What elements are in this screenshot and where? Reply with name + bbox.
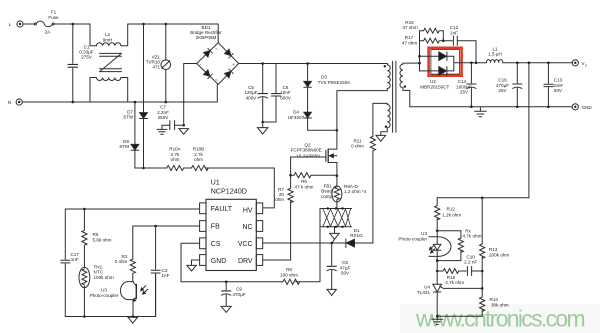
- svg-text:Photo-coupler: Photo-coupler: [398, 236, 427, 241]
- svg-text:500V: 500V: [280, 96, 292, 101]
- U2 cathode bus and output: [454, 56, 476, 71]
- svg-text:50V: 50V: [554, 88, 563, 93]
- bridge rectifier BD1 diamond: [197, 43, 239, 85]
- diode U2 bottom: [439, 67, 454, 76]
- node R5 top: [83, 208, 86, 211]
- wire GND pin to ground: [192, 260, 200, 265]
- wire VCC line: [263, 242, 346, 244]
- label Rx 4.7k ohm: [463, 228, 482, 238]
- L2 core: [100, 53, 122, 71]
- wire R13 branch: [481, 198, 483, 244]
- svg-text:R15: R15: [447, 275, 456, 280]
- resistor R11: [370, 136, 375, 150]
- diode D3 TVS: [304, 64, 312, 113]
- ground (open triangle) C9: [221, 306, 231, 312]
- label C3 1nF: [162, 268, 170, 278]
- svg-text:comp: comp: [321, 194, 333, 199]
- svg-text:TVS P6KE150A: TVS P6KE150A: [318, 80, 352, 85]
- svg-text:0 ohm: 0 ohm: [351, 144, 364, 149]
- label D1 RS1G: [350, 228, 363, 238]
- svg-text:R5: R5: [93, 232, 99, 237]
- svg-text:25V: 25V: [460, 90, 469, 95]
- capacitor C6: [263, 64, 281, 123]
- inductor L1: [486, 60, 502, 63]
- node C13 gnd: [547, 106, 550, 109]
- svg-text:FB: FB: [211, 224, 220, 231]
- label D6 STM: [119, 139, 129, 149]
- wire output node to L1: [476, 62, 486, 64]
- earth ground TL431: [432, 316, 443, 324]
- wire CS sense riser: [319, 209, 321, 282]
- primary phase dot: [384, 65, 386, 67]
- svg-text:47 ohm: 47 ohm: [402, 25, 417, 30]
- node D3: [306, 62, 309, 65]
- capacitor C3: [151, 226, 160, 317]
- label C7 2.2nF 250V: [157, 105, 169, 120]
- svg-text:0 ohm: 0 ohm: [115, 259, 128, 264]
- node C14: [470, 62, 473, 65]
- pin labels U1: [211, 206, 253, 265]
- transformer T1 core: [393, 61, 396, 132]
- svg-text:o: o: [585, 64, 587, 68]
- svg-text:120µF: 120µF: [244, 90, 257, 95]
- svg-text:5.6k ohm: 5.6k ohm: [93, 237, 112, 242]
- BD1 diode bottom-left: [204, 70, 213, 79]
- svg-text:1.2 ohm *4: 1.2 ohm *4: [344, 189, 367, 194]
- U2 anode stubs: [420, 56, 439, 71]
- ground (open triangle) sense network: [330, 227, 339, 243]
- capacitor C14: [467, 63, 476, 107]
- terminal Vo: [572, 60, 578, 66]
- wire to R10A: [135, 167, 167, 169]
- inductor L2 common-mode choke top winding: [97, 43, 121, 46]
- transistor Q2 MOSFET: [291, 149, 337, 176]
- wire L to fuse: [23, 23, 34, 25]
- label R6 47 ohm: [295, 179, 314, 189]
- wire bridge left to C7 node: [184, 64, 197, 126]
- svg-text:U3: U3: [421, 231, 427, 236]
- svg-text:U2: U2: [430, 79, 436, 84]
- svg-text:HV: HV: [243, 208, 253, 215]
- svg-text:100 ohm: 100 ohm: [280, 272, 298, 277]
- ground (open triangle) aux winding: [376, 135, 386, 141]
- LED of U3: [434, 231, 441, 261]
- resistor R10A: [167, 165, 184, 170]
- label C1 0.33uF 275V: [79, 44, 94, 59]
- svg-text:400V: 400V: [246, 96, 258, 101]
- label C12 1nF: [450, 25, 459, 35]
- svg-text:STM: STM: [119, 144, 129, 149]
- pin CS: [200, 238, 206, 249]
- label C10 2.2 nF: [464, 254, 477, 264]
- resistor R16: [420, 28, 444, 40]
- pin NC: [256, 221, 262, 232]
- label D7 STM: [123, 109, 133, 119]
- pin GND: [200, 255, 206, 266]
- wire fuse to L2, junction C1: [54, 24, 96, 46]
- svg-text:1000µF: 1000µF: [456, 84, 472, 89]
- label BD1 Bridge Rectifier 2KBP06M: [190, 25, 222, 40]
- resistor R6: [291, 173, 337, 178]
- capacitor C12: [443, 36, 476, 63]
- wire anode to Rx: [437, 231, 461, 238]
- svg-text:R12: R12: [447, 206, 456, 211]
- wire R10B to HV pin: [205, 168, 274, 208]
- svg-text:C16: C16: [498, 78, 507, 83]
- aux phase dot: [385, 126, 387, 128]
- node source R6: [336, 175, 339, 178]
- node REF: [481, 287, 484, 290]
- label C8 47uF 50V: [340, 260, 351, 276]
- node C5 C6 bottom: [261, 121, 264, 124]
- svg-text:NCP1240D: NCP1240D: [211, 186, 247, 195]
- label C6 10nF 500V: [280, 85, 292, 101]
- transistor in U3: [133, 276, 137, 317]
- node R13 top: [481, 197, 484, 200]
- svg-text:ohm: ohm: [194, 157, 203, 162]
- svg-text:U1: U1: [211, 178, 220, 187]
- label R12 1.2k ohm: [442, 206, 461, 217]
- label L1 1.5 uH: [488, 46, 502, 56]
- svg-text:~: ~: [215, 47, 218, 52]
- svg-text:2KBP06M: 2KBP06M: [196, 35, 217, 40]
- thermistor TN1 NTC: [79, 267, 90, 316]
- svg-text:ohm: ohm: [275, 197, 284, 202]
- svg-text:~: ~: [215, 78, 218, 83]
- diode D4: [304, 112, 337, 130]
- resistor R12: [435, 198, 440, 231]
- svg-text:10.2A/600V: 10.2A/600V: [296, 153, 321, 158]
- node opto emitter: [132, 315, 135, 318]
- node cathode: [436, 259, 439, 262]
- label F1 Fuse 2A: [45, 10, 59, 35]
- bottom rail TL431: [437, 315, 482, 317]
- resistor R15: [437, 269, 466, 274]
- node R13 bottom: [481, 270, 484, 273]
- label U2 MBR20150CT: [420, 79, 449, 89]
- svg-text:47 k ohm: 47 k ohm: [295, 185, 314, 190]
- varistor VZ1: [161, 24, 171, 102]
- svg-text:47µF: 47µF: [340, 265, 351, 270]
- photo-coupler U3 transistor side package arc: [121, 282, 134, 300]
- terminal N: [16, 99, 22, 105]
- rectifier U2 body box: [431, 50, 460, 75]
- svg-text:C13: C13: [554, 78, 563, 83]
- light arrows into U3: [141, 286, 148, 295]
- svg-text:2.2 nF: 2.2 nF: [464, 260, 477, 265]
- pin DRV: [256, 255, 262, 266]
- svg-text:Photo-coupler: Photo-coupler: [90, 293, 119, 298]
- svg-text:CS: CS: [211, 241, 221, 248]
- svg-text:10nF: 10nF: [280, 90, 291, 95]
- svg-text:275V: 275V: [81, 55, 93, 60]
- node C5: [261, 62, 264, 65]
- svg-text:C9: C9: [236, 287, 242, 292]
- svg-text:C8: C8: [342, 260, 348, 265]
- label R8 100 ohm: [280, 267, 298, 277]
- svg-text:4.7k ohm: 4.7k ohm: [445, 280, 464, 285]
- label C13 10nF 50V: [553, 78, 564, 94]
- capacitor C5: [258, 64, 268, 123]
- svg-text:F1: F1: [51, 10, 57, 15]
- label VZ1 TVR10 471: [146, 54, 161, 69]
- wire FAULT line: [65, 208, 199, 210]
- node anode bus: [418, 55, 421, 58]
- resistor R13: [480, 244, 485, 288]
- op-amp U1 NCP1240D body: [206, 199, 256, 270]
- label R10A 2.7k ohm: [169, 147, 181, 162]
- transformer aux winding: [373, 103, 390, 135]
- svg-text:VCC: VCC: [238, 241, 253, 248]
- svg-text:GND: GND: [211, 258, 227, 265]
- node C7 junction: [182, 124, 185, 127]
- pin FB: [200, 221, 206, 232]
- fuse F1: [34, 21, 54, 27]
- BD1 diode top-left: [204, 48, 213, 57]
- pin VCC: [256, 238, 262, 249]
- wire R11 down to D1: [355, 151, 373, 243]
- svg-text:C5: C5: [248, 85, 254, 90]
- svg-text:1nF: 1nF: [450, 30, 458, 35]
- svg-text:47 ohm: 47 ohm: [402, 40, 417, 45]
- label FB1 Bead: [321, 183, 333, 198]
- node R6 tap: [289, 174, 292, 177]
- label C16 470uF 25V: [496, 78, 509, 94]
- svg-text:R14: R14: [490, 297, 499, 302]
- svg-text:C1: C1: [84, 44, 90, 49]
- label C9 470uF: [232, 287, 245, 297]
- label R10B 2.7k ohm: [193, 147, 205, 162]
- svg-text:C14: C14: [458, 79, 467, 84]
- wire secondary top to anode bus: [403, 62, 420, 64]
- ground below C5: [258, 122, 268, 134]
- label R13 200k ohm: [489, 247, 509, 257]
- label D4 UF4007: [288, 110, 305, 120]
- svg-text:www.cntronics.com: www.cntronics.com: [415, 306, 584, 332]
- svg-text:30k ohm: 30k ohm: [491, 302, 509, 307]
- svg-text:DRV: DRV: [238, 258, 253, 265]
- svg-text:L: L: [9, 22, 12, 27]
- ground (open triangle) C8: [327, 289, 336, 295]
- resistor R8: [283, 279, 320, 284]
- node LED cathode lower: [436, 270, 439, 273]
- wire DC bus: [239, 63, 388, 65]
- node C12 output: [475, 62, 478, 65]
- svg-text:GND: GND: [582, 105, 593, 110]
- wire CS pin to sense line: [181, 243, 283, 281]
- svg-text:470µF: 470µF: [232, 292, 245, 297]
- resistor network R9A-D: [320, 207, 352, 228]
- pin HV: [256, 203, 262, 214]
- wire aux to R11: [372, 103, 374, 136]
- transformer secondary winding: [400, 63, 410, 107]
- svg-text:+: +: [232, 62, 235, 67]
- label R15 4.7k ohm: [445, 275, 464, 285]
- ferrite bead FB1: [332, 176, 342, 209]
- svg-text:1nF: 1nF: [71, 257, 79, 262]
- ground (open triangle) left block: [128, 317, 138, 323]
- earth ground on rail: [475, 107, 487, 117]
- label C17 1nF: [70, 252, 79, 262]
- label C5 120uF 400V: [244, 85, 257, 101]
- svg-text:1.2k ohm: 1.2k ohm: [442, 212, 461, 217]
- resistor R14: [480, 288, 485, 316]
- transformer primary winding: [387, 64, 390, 89]
- svg-text:R11: R11: [353, 138, 362, 143]
- svg-text:R8: R8: [286, 267, 292, 272]
- wire DRV to gate riser: [263, 259, 291, 261]
- resistor R7: [288, 188, 293, 260]
- node C8: [330, 242, 333, 245]
- svg-text:Fuse: Fuse: [48, 15, 59, 20]
- svg-text:U4: U4: [424, 285, 430, 290]
- wire L1 to Vo: [503, 62, 572, 64]
- capacitor C10: [467, 267, 482, 276]
- node NTC bottom: [83, 315, 86, 318]
- BD1 polarity marks: [200, 47, 236, 83]
- node feedback tap: [528, 62, 531, 65]
- label U3 Photo-coupler: [90, 288, 119, 299]
- capacitor C17: [61, 209, 70, 317]
- capacitor C1: [68, 24, 78, 102]
- terminal L: [17, 21, 23, 27]
- light arrows out of U3: [430, 246, 435, 253]
- svg-text:10nF: 10nF: [553, 83, 564, 88]
- resistor Rx: [458, 238, 463, 261]
- label R11 0 ohm: [351, 138, 364, 148]
- svg-text:N: N: [8, 100, 11, 105]
- svg-text:U3: U3: [101, 288, 107, 293]
- svg-text:2A: 2A: [45, 30, 52, 35]
- capacitor C8: [327, 243, 336, 289]
- bottom wire of left block: [65, 274, 155, 317]
- resistor R10B: [192, 165, 209, 170]
- svg-text:471: 471: [152, 65, 160, 70]
- svg-text:4.7k ohm: 4.7k ohm: [463, 234, 482, 239]
- node LED anode: [436, 230, 439, 233]
- wire L2 top to bridge, junctions: [121, 24, 218, 46]
- ground (open triangle) GND pin: [187, 265, 196, 271]
- wire N line: [22, 84, 217, 102]
- svg-text:1nF: 1nF: [162, 273, 170, 278]
- label D3 TVS P6KE150A: [318, 75, 352, 85]
- svg-text:FAULT: FAULT: [211, 206, 233, 213]
- capacitor C7: [162, 121, 184, 130]
- diode U2 top: [439, 52, 454, 61]
- svg-text:25V: 25V: [498, 88, 507, 93]
- ground (open triangle) below C7 node: [179, 129, 189, 135]
- node C16 gnd: [516, 106, 519, 109]
- red highlight box: [429, 48, 462, 76]
- node TL431 anode: [436, 315, 439, 318]
- label R9A-D 1.2 ohm *4: [344, 184, 367, 194]
- junction D6 D7: [142, 167, 145, 170]
- node C14 gnd: [470, 106, 473, 109]
- svg-text:470µF: 470µF: [496, 83, 509, 88]
- svg-text:250V: 250V: [158, 115, 170, 120]
- label R2 0 ohm: [115, 254, 128, 264]
- label U4 TL431: [417, 285, 430, 295]
- svg-text:Q2: Q2: [304, 142, 311, 147]
- pin FAULT: [200, 203, 206, 214]
- label C14 1000uF 25V: [456, 79, 472, 95]
- diode D6: [131, 102, 139, 168]
- label R7 20 ohm: [275, 187, 284, 202]
- node C16: [516, 62, 519, 65]
- node C13: [547, 62, 550, 65]
- wire primary bottom to drain: [337, 88, 387, 149]
- svg-text:FCPF380N60E: FCPF380N60E: [291, 148, 322, 153]
- earth ground for C7: [157, 125, 167, 134]
- BD1 diode bottom-right: [225, 69, 234, 78]
- anode bus vertical: [419, 31, 421, 71]
- svg-text:C10: C10: [466, 254, 475, 259]
- wire feedback drop: [437, 63, 529, 198]
- node C3 tap: [154, 225, 157, 228]
- wire gate riser to DRV: [290, 157, 292, 188]
- svg-text:STM: STM: [123, 115, 133, 120]
- label R14 30k ohm: [490, 297, 509, 307]
- svg-text:R13: R13: [489, 247, 498, 252]
- node C9: [225, 281, 228, 284]
- wire FB line: [133, 226, 200, 259]
- capacitor C13: [544, 63, 553, 107]
- label R5 5.6k ohm: [93, 232, 112, 242]
- svg-text:50V: 50V: [341, 271, 350, 276]
- svg-text:NC: NC: [242, 224, 252, 231]
- secondary ground rail: [410, 106, 572, 108]
- capacitor C9: [222, 282, 231, 307]
- watermark band: [400, 304, 600, 333]
- capacitor C16: [513, 63, 522, 107]
- wire between R10A R10B: [184, 167, 192, 169]
- label L2 9mH: [103, 32, 113, 42]
- svg-text:9mH: 9mH: [103, 37, 113, 42]
- svg-text:ohm: ohm: [171, 157, 180, 162]
- shunt regulator U4 TL431: [433, 261, 482, 317]
- label Q2 FCPF380N60 10.2A/600V: [291, 142, 322, 158]
- label Vo: [582, 61, 588, 68]
- resistor R5: [82, 209, 87, 268]
- wire cathode to Rx bottom: [437, 260, 461, 262]
- label R17 47 ohm: [402, 35, 417, 45]
- svg-text:UF4007: UF4007: [288, 115, 305, 120]
- svg-text:MBR20150CT: MBR20150CT: [420, 84, 449, 89]
- resistor R2: [130, 259, 135, 276]
- label R16 47 ohm: [402, 20, 417, 30]
- resistor R17: [420, 38, 444, 43]
- node drain junction: [336, 129, 339, 132]
- label U3 Photo-coupler: [398, 231, 427, 241]
- secondary phase dot: [404, 85, 406, 87]
- photo-coupler U3 LED side package arc: [429, 237, 451, 257]
- svg-text:C6: C6: [283, 85, 289, 90]
- svg-text:TL431: TL431: [417, 290, 430, 295]
- svg-text:RS1G: RS1G: [350, 233, 363, 238]
- svg-text:100k ohm: 100k ohm: [94, 275, 114, 280]
- node snubber: [442, 39, 445, 42]
- svg-text:200k ohm: 200k ohm: [489, 253, 509, 258]
- diode D7: [140, 24, 148, 168]
- diode D1: [346, 239, 373, 247]
- inductor L2 bottom winding: [90, 78, 128, 103]
- svg-text:1.5 µH: 1.5 µH: [488, 52, 502, 57]
- label TN1 NTC 100k ohm: [94, 264, 114, 279]
- BD1 diode top-right: [225, 49, 234, 58]
- svg-text:R6: R6: [301, 179, 307, 184]
- terminal GND: [572, 104, 578, 110]
- label U1 NCP1240D: [211, 178, 247, 196]
